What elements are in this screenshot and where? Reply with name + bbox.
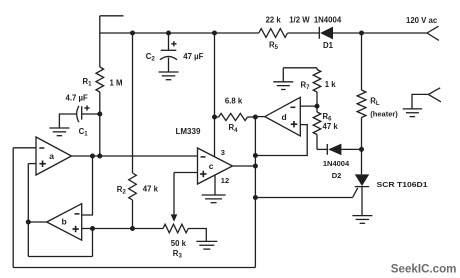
- wire C1 right lead: [82, 113, 100, 115]
- ground C2: [159, 72, 179, 80]
- label D1 part 1N4004: [314, 16, 342, 25]
- node a-output/C1: [97, 154, 102, 159]
- ground SCR: [352, 216, 372, 224]
- svg-text:47 k: 47 k: [143, 185, 159, 194]
- label SCR T106D1: [377, 180, 428, 189]
- node a-output/b-inverting: [90, 154, 95, 159]
- svg-text:6.8 k: 6.8 k: [225, 96, 243, 105]
- terminal return chevron: [428, 88, 441, 102]
- wire c ground pin12: [214, 175, 216, 195]
- label b: [62, 216, 67, 226]
- label R7: [301, 81, 311, 92]
- wire R3 wiper: [171, 173, 178, 222]
- op-amp c minus input mark: [201, 156, 206, 158]
- svg-text:C2: C2: [146, 52, 156, 63]
- svg-text:R7: R7: [301, 81, 311, 92]
- wire d noninverting feedback: [255, 125, 307, 156]
- svg-text:b: b: [62, 216, 67, 226]
- wire R1 bottom to a-output node: [99, 92, 101, 156]
- node bus-C2: [166, 31, 171, 36]
- op-amp a minus input mark: [39, 147, 44, 149]
- capacitor C2: [160, 50, 177, 60]
- wire C2 to ground: [168, 58, 170, 72]
- svg-text:RL: RL: [370, 97, 380, 108]
- op-amp d minus input mark: [290, 106, 295, 108]
- svg-text:47 µF: 47 µF: [183, 52, 203, 61]
- node bus-R4: [212, 31, 217, 36]
- wire R2 to b-plus wire: [132, 200, 134, 229]
- label C2 plus polarity: [171, 41, 176, 46]
- label D2 part 1N4004: [323, 159, 350, 168]
- svg-text:R2: R2: [117, 185, 127, 196]
- wire return terminal: [412, 94, 428, 109]
- svg-text:SeekIC.com: SeekIC.com: [391, 263, 457, 276]
- wire bus to RL: [361, 33, 363, 90]
- wire SCR gate: [255, 197, 352, 199]
- wire b noninverting input to R3: [82, 228, 163, 230]
- label C1 value 4.7uF: [66, 93, 88, 102]
- label RL: [370, 97, 380, 108]
- svg-text:1N4004: 1N4004: [314, 16, 342, 25]
- wire inner loop riser to b plus node: [92, 229, 94, 257]
- SCR T106D1: [355, 174, 369, 215]
- svg-text:22 k: 22 k: [266, 16, 282, 25]
- wire d-output column: [254, 117, 256, 268]
- node b-plus riser junction: [90, 226, 95, 231]
- diode D2: [317, 144, 362, 156]
- ground R7: [273, 82, 293, 90]
- op-amp d: [265, 97, 301, 136]
- wire inner loop bottom: [28, 256, 92, 258]
- op-amp a plus input mark: [39, 161, 45, 167]
- wire RL to SCR anode: [361, 118, 363, 175]
- resistor R6: [313, 106, 321, 149]
- label R6 value 47k: [323, 122, 339, 131]
- terminal 120Vac chevron: [427, 26, 439, 40]
- label RL heater: [370, 110, 398, 119]
- wire bus to R2: [132, 33, 134, 173]
- wire outer feedback left: [12, 148, 14, 268]
- node R7-R6-d junction: [315, 104, 320, 109]
- wire bus to R4 and c V+ pin3: [214, 33, 216, 157]
- label R7 value 1k: [325, 80, 337, 89]
- svg-text:120 V ac: 120 V ac: [406, 16, 438, 25]
- label R1: [83, 77, 93, 88]
- node R2-bottom junction: [130, 226, 135, 231]
- label C1: [79, 127, 89, 138]
- label C1 plus polarity: [84, 105, 89, 110]
- svg-text:(heater): (heater): [370, 110, 398, 119]
- wire R7 ground drop: [282, 68, 284, 82]
- svg-text:47 k: 47 k: [323, 122, 339, 131]
- op-amp b plus input mark: [72, 226, 78, 232]
- wire d output: [255, 116, 264, 118]
- svg-text:12: 12: [221, 176, 229, 185]
- wire left supply column: [99, 16, 101, 67]
- wire outer feedback bottom: [13, 267, 255, 269]
- SCR gate lead: [353, 188, 358, 198]
- label R2 value 47k: [143, 185, 159, 194]
- svg-text:1N4004: 1N4004: [323, 159, 350, 168]
- svg-text:LM339: LM339: [176, 127, 201, 136]
- svg-text:D2: D2: [332, 171, 342, 180]
- wire inner loop left: [27, 164, 29, 257]
- svg-text:d: d: [282, 112, 287, 122]
- ground c pin12: [202, 195, 226, 203]
- node d-output/R4: [253, 115, 258, 120]
- label R5 value 22k: [266, 16, 282, 25]
- resistor R4: [215, 113, 256, 120]
- resistor RL heater: [357, 90, 366, 118]
- watermark SeekIC.com: [391, 263, 457, 276]
- label D2: [332, 171, 342, 180]
- ground R3: [196, 241, 217, 249]
- label a: [49, 151, 54, 161]
- wire bus D1 to 120Vac terminal: [333, 32, 427, 34]
- label R1 value 1M: [110, 78, 123, 87]
- svg-text:1/2 W: 1/2 W: [289, 16, 310, 25]
- node bus-R2: [130, 31, 135, 36]
- node c-output junction: [253, 164, 258, 169]
- ground C1: [49, 128, 69, 136]
- label R6: [323, 112, 333, 123]
- svg-text:c: c: [209, 161, 214, 171]
- svg-text:R3: R3: [173, 249, 183, 260]
- wire R3 right to ground: [188, 229, 206, 242]
- svg-text:3: 3: [221, 148, 225, 157]
- op-amp c plus input mark: [200, 171, 206, 177]
- svg-text:1 k: 1 k: [325, 80, 337, 89]
- label R4: [229, 123, 239, 134]
- op-amp a: [36, 137, 72, 175]
- node D2-SCR junction: [359, 147, 364, 152]
- svg-text:R1: R1: [83, 77, 93, 88]
- wire top supply bus left: [100, 32, 259, 34]
- label U1 LM339: [176, 127, 201, 136]
- potentiometer R3: [163, 224, 188, 233]
- op-amp c: [198, 148, 233, 184]
- svg-text:4.7 µF: 4.7 µF: [66, 93, 88, 102]
- wire C1 left lead to ground: [59, 114, 76, 128]
- svg-text:a: a: [49, 151, 54, 161]
- svg-text:R4: R4: [229, 123, 239, 134]
- resistor R1: [96, 67, 104, 92]
- svg-text:R5: R5: [269, 40, 279, 51]
- label c pin 3: [221, 148, 225, 157]
- node b-output junction: [26, 220, 31, 225]
- label R3: [173, 249, 183, 260]
- wire bus to C2: [168, 33, 170, 50]
- svg-text:D1: D1: [323, 41, 334, 50]
- label R4 value 6.8k: [225, 96, 243, 105]
- capacitor C1: [77, 106, 82, 122]
- svg-text:C1: C1: [79, 127, 89, 138]
- label 120 V ac: [406, 16, 438, 25]
- node C1-R1 junction: [97, 112, 102, 117]
- wire b inverting input: [82, 156, 93, 215]
- wire bus R5 to D1: [288, 32, 320, 34]
- wire c noninverting input: [174, 172, 198, 174]
- label R5 rating 1/2W: [289, 16, 310, 25]
- label d: [282, 112, 287, 122]
- resistor R2: [129, 173, 137, 200]
- wire R7 top to ground stub: [283, 67, 317, 69]
- label c pin 12: [221, 176, 229, 185]
- label D1: [323, 41, 334, 50]
- ground return terminal: [403, 109, 423, 117]
- wire a noninverting input: [28, 163, 36, 165]
- label R3 value 50k: [171, 239, 187, 248]
- op-amp b minus input mark: [75, 213, 80, 215]
- label c: [209, 161, 214, 171]
- svg-text:1 M: 1 M: [110, 78, 123, 87]
- wire top-left stub: [100, 15, 124, 17]
- resistor R7: [313, 68, 321, 106]
- diode D1: [319, 27, 333, 40]
- svg-text:SCR T106D1: SCR T106D1: [377, 180, 428, 189]
- wire b output: [28, 221, 46, 223]
- node d-feedback junction: [253, 153, 258, 158]
- wire c output: [233, 165, 256, 167]
- wire a inverting input: [13, 147, 36, 149]
- wire d inverting input: [300, 105, 317, 107]
- node bus-RL: [359, 31, 364, 36]
- resistor R5: [259, 29, 288, 38]
- label C2 value 47uF: [183, 52, 203, 61]
- wire a output to c inverting input: [72, 155, 198, 157]
- op-amp b: [47, 204, 82, 241]
- label R5: [269, 40, 279, 51]
- node R4-left junction: [212, 115, 217, 120]
- label R2: [117, 185, 127, 196]
- label C2: [146, 52, 156, 63]
- node gate-wire junction: [253, 195, 258, 200]
- op-amp d plus input mark: [291, 121, 297, 127]
- svg-text:50 k: 50 k: [171, 239, 187, 248]
